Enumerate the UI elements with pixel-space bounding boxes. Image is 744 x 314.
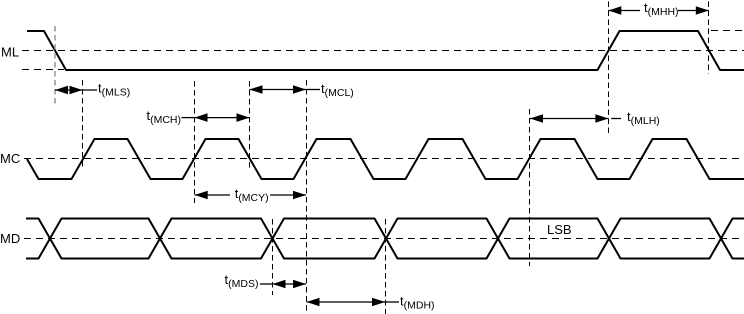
node MC first rising-edge marker (dashed) bbox=[82, 80, 84, 168]
svg-text:t(MHH): t(MHH) bbox=[644, 0, 679, 18]
wire MC clock waveform bbox=[27, 139, 744, 179]
svg-text:t(MCY): t(MCY) bbox=[235, 186, 269, 204]
svg-text:t(MLH): t(MLH) bbox=[627, 109, 660, 127]
wire MD data bus waveform lower trace bbox=[26, 219, 744, 259]
dimension t(MCY) bbox=[195, 186, 306, 204]
svg-text:t(MLS): t(MLS) bbox=[98, 80, 130, 98]
svg-text:MC: MC bbox=[0, 151, 20, 166]
node MD mid-level reference (dashed) bbox=[24, 238, 744, 240]
wire MD data bus waveform upper trace bbox=[26, 219, 744, 259]
dimension t(MDH) bbox=[307, 293, 435, 311]
dimension t(MCL) bbox=[250, 81, 354, 99]
node MC rising-edge marker for t(MLH) (dashed) bbox=[529, 109, 531, 266]
node MC rising-edge marker for t(MCL)/t(MCY)/t(MDS) (dashed) bbox=[306, 80, 308, 314]
svg-text:LSB: LSB bbox=[547, 222, 572, 237]
dimension t(MDS) bbox=[225, 272, 307, 290]
node MD valid-data marker for t(MDS) (dashed) bbox=[272, 219, 274, 295]
node MD transition marker for t(MDH) (dashed) bbox=[385, 219, 387, 314]
dimension t(MLS) bbox=[55, 80, 130, 98]
node ML mid-level reference (dashed) bbox=[22, 50, 744, 52]
svg-text:t(MDS): t(MDS) bbox=[225, 272, 259, 290]
node MC rising-edge marker for t(MCH)/t(MCY) (dashed) bbox=[194, 81, 196, 203]
svg-text:t(MDH): t(MDH) bbox=[400, 293, 435, 311]
svg-text:MD: MD bbox=[0, 231, 20, 246]
dimension t(MCH) bbox=[146, 108, 249, 126]
dimension t(MLH) bbox=[530, 109, 660, 127]
dimension t(MHH) bbox=[608, 0, 709, 18]
node ML falling-edge marker (gray dashed) bbox=[54, 26, 56, 105]
node ML rising-edge marker (dashed) bbox=[608, 2, 610, 134]
node ML high-level reference (dashed) bbox=[711, 30, 744, 32]
node MC mid-level reference (dashed) bbox=[24, 158, 744, 160]
svg-text:ML: ML bbox=[1, 45, 19, 60]
wire ML waveform bbox=[27, 31, 744, 70]
node ML trailing falling-edge marker (dashed) bbox=[708, 2, 710, 75]
node ML low-level reference (dashed) bbox=[22, 69, 64, 71]
svg-text:t(MCL): t(MCL) bbox=[321, 81, 354, 99]
svg-text:t(MCH): t(MCH) bbox=[146, 108, 181, 126]
node MC falling-edge marker for t(MCH)/t(MCL) (dashed) bbox=[249, 81, 251, 170]
